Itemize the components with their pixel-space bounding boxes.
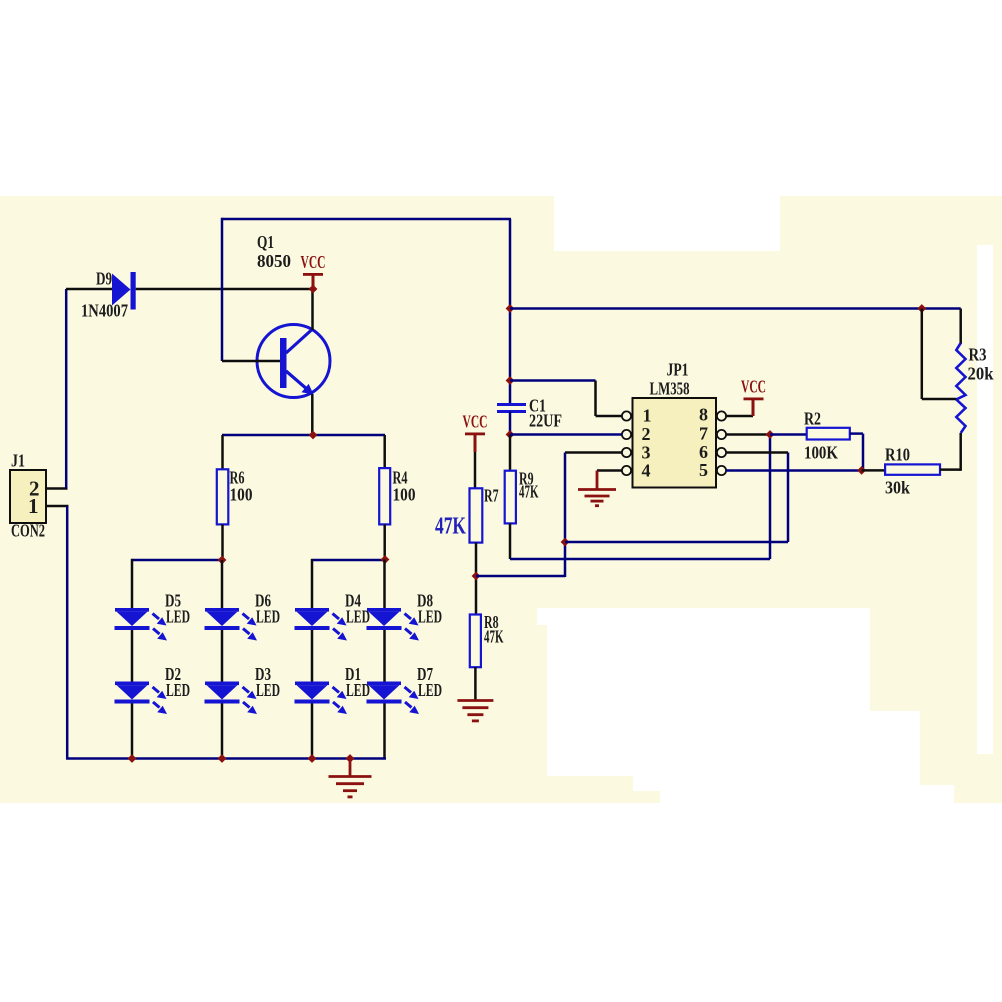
wire pin7 to R2 bbox=[770, 433, 807, 436]
ground stem (pin4) bbox=[596, 471, 599, 490]
junction rail tap x=510 bbox=[506, 304, 515, 313]
svg-text:1N4007: 1N4007 bbox=[81, 301, 128, 321]
svg-text:VCC: VCC bbox=[463, 412, 488, 432]
wire col4 middle bbox=[383, 629, 386, 683]
svg-text:3: 3 bbox=[642, 443, 651, 463]
wire R10 left lead bbox=[862, 469, 886, 472]
junction emitter rail bbox=[309, 431, 318, 440]
svg-text:R7: R7 bbox=[484, 486, 499, 506]
ground (pin4) bbox=[578, 490, 616, 506]
wire C1 bottom to pin2 node bbox=[509, 412, 512, 436]
LED D3 bbox=[205, 682, 258, 715]
wire pin8 stub bbox=[726, 415, 753, 418]
junction R2/R10/pin5 bbox=[857, 466, 866, 475]
LED D5 bbox=[115, 608, 168, 641]
wire vertical x=222 to Q1 base bbox=[221, 218, 224, 361]
wire col2 middle bbox=[221, 629, 224, 683]
LED D6 bbox=[205, 608, 258, 641]
wire R9 top lead bbox=[509, 435, 512, 472]
svg-text:47K: 47K bbox=[484, 627, 504, 647]
wire col3 middle bbox=[311, 629, 314, 683]
wire R10 right lead bbox=[940, 468, 961, 471]
wire R3 tap vertical bbox=[921, 309, 924, 400]
svg-text:8050: 8050 bbox=[257, 251, 291, 271]
svg-text:100: 100 bbox=[230, 485, 253, 505]
svg-text:R3: R3 bbox=[969, 345, 987, 365]
junction R4 bottom bbox=[381, 555, 390, 564]
svg-text:5: 5 bbox=[699, 460, 708, 480]
svg-text:47K: 47K bbox=[519, 482, 539, 502]
svg-text:22UF: 22UF bbox=[529, 411, 562, 431]
svg-text:R10: R10 bbox=[885, 445, 910, 465]
wire pin2 net bbox=[510, 433, 622, 436]
wire Q1 base lead bbox=[222, 360, 280, 363]
wire pin1 stub bbox=[596, 415, 622, 418]
wire pin6 stub bbox=[726, 451, 788, 454]
junction C1 top / pin1 net bbox=[506, 376, 515, 385]
resistor R2 bbox=[807, 428, 850, 440]
wire col3 upper bbox=[311, 559, 314, 609]
power VCC (pin8) bbox=[744, 398, 764, 401]
ground stem (LED rail) bbox=[349, 759, 352, 777]
resistor R3 zigzag bbox=[956, 343, 965, 433]
wire divider to pin3 net bbox=[476, 575, 565, 578]
wire R9 to pin7 riser bbox=[510, 558, 770, 561]
white notch top middle bbox=[554, 196, 780, 251]
JP1 pin circles left bbox=[622, 411, 631, 475]
wire J1 pin2 stub bbox=[46, 487, 68, 490]
wire R2 drop to junction bbox=[862, 434, 865, 471]
svg-text:8: 8 bbox=[699, 405, 708, 425]
wire row header cols 1-2 bbox=[132, 559, 222, 562]
wire pin1 net vertical bbox=[594, 381, 597, 417]
cream schematic background bbox=[0, 196, 1002, 803]
svg-text:47K: 47K bbox=[435, 514, 466, 540]
svg-text:30k: 30k bbox=[885, 478, 910, 498]
svg-text:LED: LED bbox=[166, 680, 190, 700]
svg-text:LED: LED bbox=[256, 607, 280, 627]
svg-text:LED: LED bbox=[346, 680, 370, 700]
svg-text:VCC: VCC bbox=[301, 252, 326, 272]
wire R6 bottom lead bbox=[221, 524, 224, 560]
wire row header cols 3-4 bbox=[313, 559, 385, 562]
power VCC (Q1) bbox=[303, 273, 323, 276]
capacitor C1 bbox=[497, 405, 526, 412]
junction col1 bottom bbox=[128, 754, 137, 763]
white blob bottom right bbox=[537, 608, 870, 625]
svg-text:R2: R2 bbox=[804, 409, 821, 429]
white strip right bbox=[977, 245, 993, 754]
wire R4 top lead bbox=[383, 435, 386, 469]
connector J1 box bbox=[10, 470, 46, 523]
junction D9/VCC/collector bbox=[309, 285, 318, 294]
junction ground tap bbox=[346, 754, 355, 763]
svg-text:LED: LED bbox=[346, 607, 370, 627]
svg-text:2: 2 bbox=[642, 424, 651, 444]
wire R2 right lead bbox=[850, 432, 863, 435]
svg-text:LED: LED bbox=[166, 607, 190, 627]
LED D1 bbox=[295, 682, 348, 715]
wire pin6 riser bbox=[787, 453, 790, 543]
LED D8 bbox=[367, 608, 420, 641]
resistor R7 bbox=[470, 488, 483, 542]
LED D4 bbox=[295, 608, 348, 641]
junction col2 bottom bbox=[218, 754, 227, 763]
wire col3 lower bbox=[311, 703, 314, 759]
svg-text:VCC: VCC bbox=[741, 377, 766, 397]
junction pin7/R2 bbox=[766, 430, 775, 439]
wire bottom rail bbox=[66, 757, 386, 760]
wire emitter rail bbox=[222, 434, 385, 437]
wire J1 pin1 drop to bottom rail bbox=[66, 506, 69, 759]
wire J1 pin1 stub bbox=[46, 505, 69, 508]
VCC stem (pin8) bbox=[752, 400, 755, 416]
svg-text:20k: 20k bbox=[968, 364, 994, 384]
wire top rail bbox=[222, 218, 511, 221]
wire pin4 stub bbox=[597, 469, 622, 472]
JP1 pin circles right bbox=[717, 411, 726, 475]
transistor Q1 bbox=[257, 325, 330, 398]
resistor R9 bbox=[505, 471, 516, 524]
wire J1 pin2 riser to D9 bbox=[65, 289, 68, 489]
resistor R6 bbox=[217, 469, 229, 524]
wire col4 lower bbox=[383, 703, 386, 759]
resistor R4 bbox=[379, 468, 390, 524]
wire D9 cathode to VCC node bbox=[136, 288, 313, 291]
junction col3 bottom bbox=[308, 754, 317, 763]
junction R6 bottom bbox=[218, 556, 227, 565]
wire pin3 stub bbox=[565, 451, 622, 454]
svg-text:JP1: JP1 bbox=[667, 360, 689, 380]
svg-text:1: 1 bbox=[643, 406, 652, 426]
wire pin7 riser bbox=[769, 435, 772, 560]
ground (LED rail) bbox=[329, 777, 372, 797]
wire R3 bottom lead bbox=[959, 433, 962, 471]
LED D2 bbox=[115, 682, 168, 715]
svg-text:100: 100 bbox=[393, 485, 416, 505]
wire col1 middle bbox=[131, 629, 134, 683]
svg-text:4: 4 bbox=[642, 461, 651, 481]
junction pin3/pin6 net bbox=[561, 538, 570, 547]
svg-text:LED: LED bbox=[418, 607, 442, 627]
svg-text:J1: J1 bbox=[11, 451, 25, 471]
wire Q1 collector lead bbox=[311, 289, 314, 330]
svg-text:D9: D9 bbox=[96, 269, 112, 289]
wire Q1 emitter lead bbox=[311, 394, 314, 436]
resistor R8 bbox=[470, 615, 481, 668]
wire pin3 net vertical bbox=[564, 453, 567, 578]
wire R9 bottom lead bbox=[509, 523, 512, 559]
svg-text:1: 1 bbox=[28, 494, 39, 518]
junction pin2/R9/C1 bbox=[506, 430, 515, 439]
wire col4 upper bbox=[383, 560, 386, 610]
svg-text:Q1: Q1 bbox=[257, 232, 274, 252]
wire R6 top lead bbox=[221, 435, 224, 470]
wire long rail y=308 bbox=[510, 307, 961, 310]
svg-text:LED: LED bbox=[418, 680, 442, 700]
wire col2 upper bbox=[221, 560, 224, 609]
VCC stem (Q1) bbox=[312, 276, 315, 290]
ground (R8) bbox=[457, 701, 493, 721]
svg-text:6: 6 bbox=[699, 442, 708, 462]
VCC stem (R7) bbox=[474, 435, 477, 452]
wire left to D9 anode bbox=[66, 288, 112, 291]
resistor R10 bbox=[885, 464, 940, 474]
svg-text:LM358: LM358 bbox=[650, 379, 690, 399]
LED D7 bbox=[367, 682, 420, 715]
wire R7 to R8 bbox=[475, 543, 478, 615]
junction R3 tap bbox=[917, 304, 926, 313]
IC JP1 LM358 box bbox=[633, 398, 717, 488]
wire R3 tap horizontal bbox=[922, 398, 957, 401]
wire R8 to ground bbox=[474, 667, 477, 700]
wire R3 top lead bbox=[959, 309, 962, 345]
wire pin6 net horizontal bbox=[565, 541, 788, 544]
power VCC (R7) bbox=[465, 433, 485, 436]
svg-text:7: 7 bbox=[699, 424, 708, 444]
diode D9 bbox=[112, 272, 136, 310]
junction R7/R8 divider bbox=[472, 572, 481, 581]
wire col2 lower bbox=[221, 703, 224, 759]
svg-text:LED: LED bbox=[256, 680, 280, 700]
wire pin5 net bbox=[726, 469, 862, 472]
wire col1 lower bbox=[131, 703, 134, 759]
svg-text:100K: 100K bbox=[804, 443, 838, 463]
wire pin1 net horizontal bbox=[510, 379, 596, 382]
wire col1 upper bbox=[131, 559, 134, 609]
wire vertical x=510 upper bbox=[509, 219, 512, 404]
wire VCC to R7 bbox=[474, 452, 477, 489]
svg-text:CON2: CON2 bbox=[11, 521, 45, 541]
wire pin7 stub bbox=[726, 433, 770, 436]
wire R4 bottom lead bbox=[383, 524, 386, 559]
